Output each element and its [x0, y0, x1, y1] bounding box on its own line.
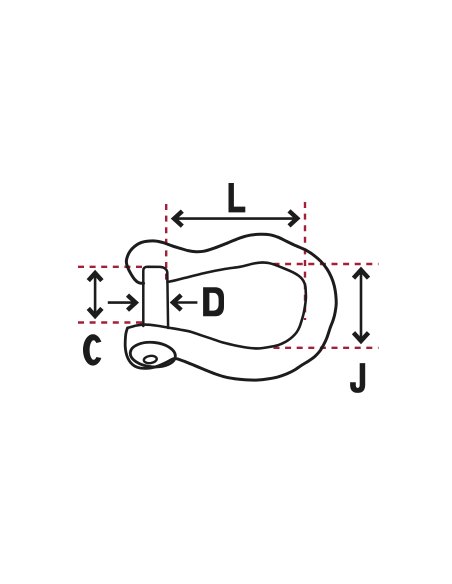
label J [350, 363, 365, 393]
dimension arrow L (horizontal double arrow) [176, 217, 296, 220]
label L [229, 183, 246, 212]
dimension arrow D left part (points right at pin) [108, 301, 134, 304]
label D [203, 287, 224, 316]
dimension line C top (red dashed horizontal) [78, 266, 143, 268]
dimension line L left (red dashed vertical) [165, 204, 167, 284]
dimension arrow D right part (points left at pin) [175, 301, 198, 304]
dimension line L right (red dashed vertical) [304, 202, 306, 320]
bottom arm top edge (opening bottom) [128, 325, 257, 349]
shackle body outer outline [126, 234, 336, 380]
dimension line J bottom (red dashed horizontal) [274, 347, 379, 349]
shackle pin [143, 267, 168, 328]
bow inner opening (top and right edge) [167, 262, 306, 348]
pin head ear outline [125, 328, 177, 368]
pin head face (ellipse) [129, 340, 176, 368]
dimension line J top (red dashed horizontal) [274, 263, 379, 265]
dimension line C bottom (red dashed horizontal) [78, 321, 148, 323]
pin head hole [143, 355, 157, 364]
dimension arrow J (vertical double arrow) [360, 271, 363, 340]
dimension arrow C (vertical double arrow) [94, 275, 97, 315]
label C [83, 334, 101, 365]
